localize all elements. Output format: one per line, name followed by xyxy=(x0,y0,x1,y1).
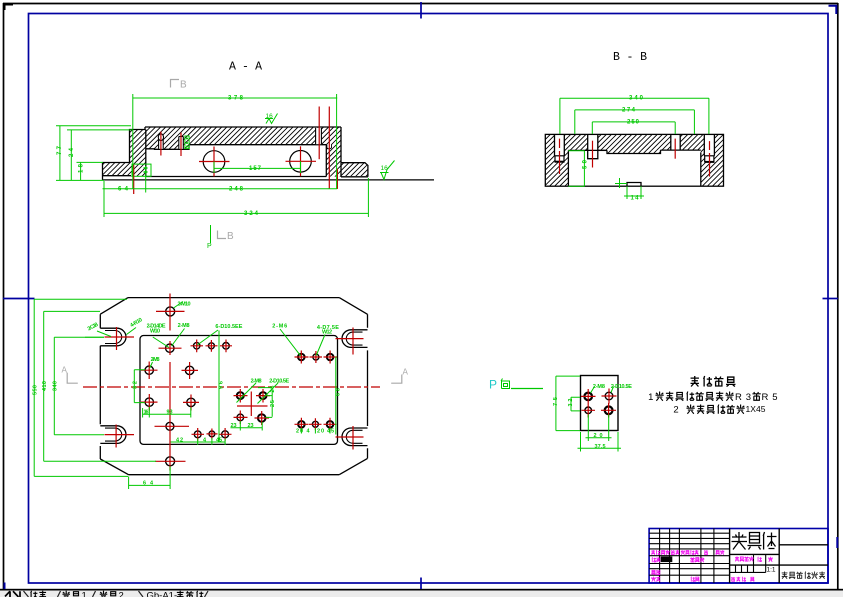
magenta labels left table (pseudo hanzi) xyxy=(651,550,773,582)
leaders xyxy=(591,387,614,394)
svg-text:1:1: 1:1 xyxy=(767,567,776,574)
ceiling left segment xyxy=(568,149,607,151)
plan green labels xyxy=(33,302,342,487)
hatched right wall block xyxy=(701,134,724,186)
svg-text:1X45: 1X45 xyxy=(746,404,766,414)
stud hole 2 (white slot) xyxy=(179,137,184,149)
bore right crosshair xyxy=(286,160,317,162)
small row crosses xyxy=(192,428,232,441)
svg-text:157: 157 xyxy=(249,166,262,172)
P green dims xyxy=(556,376,621,451)
bottom-left chamfer xyxy=(100,459,128,475)
top edge xyxy=(128,297,339,299)
svg-text:32: 32 xyxy=(568,399,574,407)
svg-text:23: 23 xyxy=(231,423,237,429)
right edge segments xyxy=(367,314,369,458)
bolt left outline xyxy=(555,134,565,155)
long vertical ext x219 xyxy=(218,331,220,443)
right A marker xyxy=(391,375,402,384)
svg-text:45: 45 xyxy=(327,429,334,435)
left flange left edge xyxy=(102,163,104,180)
svg-text:W10: W10 xyxy=(150,329,160,335)
left flange top xyxy=(103,162,130,164)
green dims B-B xyxy=(560,98,709,199)
dim under small row xyxy=(171,438,226,445)
plan holes (black circles) xyxy=(145,307,333,466)
hole upper-left M8 xyxy=(166,344,174,352)
dim 64/248 line xyxy=(103,188,337,190)
cluster bottom dim xyxy=(231,421,263,431)
svg-text:2: 2 xyxy=(673,405,678,416)
right flange top + chamfer xyxy=(341,163,368,177)
2x2 cluster xyxy=(237,392,244,399)
right trio bottom tick xyxy=(301,428,330,434)
right trio top xyxy=(298,354,305,361)
P arrow green small xyxy=(210,225,212,243)
right wall outer edge xyxy=(340,127,342,177)
svg-text:Gb-A1-: Gb-A1- xyxy=(147,591,178,597)
tab text: 模型 xyxy=(31,591,204,597)
svg-text:20: 20 xyxy=(317,429,324,435)
centering mark right xyxy=(823,298,839,300)
svg-text:37.5: 37.5 xyxy=(595,444,606,450)
hatched top plate right part xyxy=(189,127,341,145)
plate bottom right segment xyxy=(189,144,326,146)
right flange underside xyxy=(341,176,368,178)
slot2 centerline xyxy=(592,141,594,168)
svg-text:32: 32 xyxy=(133,381,139,389)
right wall inner edge xyxy=(325,145,327,177)
slot3 outline xyxy=(671,134,680,149)
base bottom + ground line xyxy=(103,179,435,181)
bottom-right chamfer xyxy=(339,458,367,474)
ext line left long xyxy=(132,94,134,189)
bore circle right xyxy=(290,151,312,173)
ext line right long xyxy=(336,94,338,189)
bolt slot right (white) xyxy=(704,134,714,156)
body outline black xyxy=(103,127,435,180)
P holes xyxy=(584,392,612,414)
leader label a to hole2 xyxy=(153,337,169,348)
hatched right flange xyxy=(341,163,368,176)
right trio bottom crosses xyxy=(295,418,337,431)
plan green dims xyxy=(34,299,336,489)
hatched top band xyxy=(568,134,700,150)
left table verticals xyxy=(659,529,661,584)
green gauge box at left flange xyxy=(132,164,151,176)
ext left bottom xyxy=(103,181,105,217)
leader right trio phi7.5 xyxy=(316,335,325,356)
bottom dim 64 xyxy=(129,484,171,486)
outer border blue xyxy=(649,529,828,584)
main horizontal centerline dashed xyxy=(83,386,380,388)
bolt slot left (white) xyxy=(555,134,565,156)
left flange underside xyxy=(103,175,132,177)
centering mark bottom xyxy=(420,578,422,590)
B cut marker top (gray) xyxy=(171,80,180,88)
hatched left wall xyxy=(130,130,146,177)
ceiling right segment xyxy=(661,149,701,151)
left bracket dim xyxy=(556,376,580,431)
svg-text:250: 250 xyxy=(627,120,640,126)
svg-text:274: 274 xyxy=(622,108,636,114)
leader right trio 2-M6 xyxy=(280,329,301,356)
left notch leader xyxy=(85,331,111,337)
svg-text:14: 14 xyxy=(631,196,640,202)
hatched central ledge xyxy=(607,150,661,153)
cavity right wall edge xyxy=(700,152,702,186)
dim labels A-A (green) xyxy=(57,96,262,218)
top-left black corner mark xyxy=(5,5,14,11)
svg-text:A: A xyxy=(62,366,68,376)
ext right bottom xyxy=(367,178,369,217)
hatched left wall block xyxy=(545,134,568,186)
vertical centerline through mid holes xyxy=(169,294,171,471)
cavity floor xyxy=(146,176,326,178)
plate bottom left segment xyxy=(146,145,189,150)
green dimensions A-A xyxy=(56,94,368,217)
left bolt centerline xyxy=(559,139,561,174)
svg-text:25: 25 xyxy=(270,386,276,393)
small cells row xyxy=(730,571,766,573)
left dim verticals xyxy=(33,299,35,476)
hatched left flange xyxy=(103,163,130,176)
stage row labels xyxy=(735,556,739,561)
布局1 xyxy=(62,591,70,597)
ext at 145.7 xyxy=(145,166,147,193)
notch top-right xyxy=(342,330,368,348)
hole top M10 xyxy=(166,307,175,316)
svg-text:P: P xyxy=(207,243,212,250)
bottom dim ext xyxy=(586,415,612,442)
P green labels xyxy=(553,384,632,450)
svg-text:68: 68 xyxy=(336,388,342,396)
stud2 centerline xyxy=(180,133,182,157)
outer outline xyxy=(100,298,367,475)
mid-left crosses xyxy=(141,362,198,380)
lower-left crosses xyxy=(141,394,199,411)
dim 274 xyxy=(575,109,695,111)
signature black blot xyxy=(661,557,673,563)
through slot 2 (white) xyxy=(588,134,598,159)
notch bottom-left xyxy=(100,426,126,444)
cluster right bracket xyxy=(258,388,272,418)
bottom edge xyxy=(129,474,340,476)
svg-text:93: 93 xyxy=(167,410,173,416)
hole4 leader xyxy=(150,362,153,368)
ju xyxy=(748,533,762,550)
center column boundary xyxy=(778,529,780,584)
trio left crosses xyxy=(191,340,233,353)
right column rows xyxy=(779,544,828,546)
top hole cross xyxy=(156,310,185,312)
svg-text:2-D10.5E: 2-D10.5E xyxy=(611,384,632,390)
标题栏 xyxy=(177,591,184,597)
left wall inner edge xyxy=(145,130,147,177)
trio left holes xyxy=(194,343,200,349)
left flange bolt centerline xyxy=(133,165,135,194)
inner pocket xyxy=(140,336,338,445)
ti xyxy=(763,532,776,550)
top-right chamfer xyxy=(339,298,367,315)
jia xyxy=(732,532,748,550)
ledge step xyxy=(607,150,661,153)
svg-text:340: 340 xyxy=(629,96,644,102)
labels B-B xyxy=(583,96,644,202)
under title cell xyxy=(730,553,780,555)
counterbore seat under plate right xyxy=(327,144,332,149)
svg-text:378: 378 xyxy=(228,96,244,102)
P red crosses xyxy=(581,389,617,418)
connector top1 xyxy=(56,125,131,127)
hole lower-left pair xyxy=(145,398,153,406)
svg-text:77: 77 xyxy=(57,145,63,155)
svg-text:16: 16 xyxy=(266,113,274,120)
slot3 centerline xyxy=(674,139,676,159)
svg-text:45: 45 xyxy=(216,438,222,444)
window bottom black line xyxy=(0,589,843,591)
right bolt centerline xyxy=(709,141,711,176)
bore left crosshair xyxy=(199,161,230,163)
connector flange top xyxy=(77,161,104,163)
2x2 cluster crosses xyxy=(234,389,271,425)
cavity depth dim xyxy=(568,150,584,152)
slot2 outline xyxy=(588,134,598,158)
centering mark left xyxy=(3,298,35,300)
corner leader top-left xyxy=(127,328,137,335)
green gauge box beside stud 2 xyxy=(185,136,189,149)
notch bottom dim xyxy=(626,186,628,199)
corner tick bottom-left xyxy=(4,583,6,590)
svg-text:16: 16 xyxy=(144,410,149,416)
svg-text:B - B: B - B xyxy=(613,51,647,64)
stud1 centerline xyxy=(160,132,162,156)
svg-text:23: 23 xyxy=(248,423,254,429)
bottom hole cross xyxy=(155,460,186,462)
left A marker xyxy=(67,373,78,384)
hole bottom M10 xyxy=(166,457,175,466)
dim 378 top xyxy=(133,97,337,99)
connector top2 xyxy=(67,129,132,131)
upper-left hole cross xyxy=(159,347,182,349)
notch crosses xyxy=(105,327,364,450)
svg-text:96: 96 xyxy=(219,381,225,389)
B cut marker bottom (gray) xyxy=(218,231,227,239)
top-left chamfer xyxy=(100,298,128,315)
bottom center notch box xyxy=(627,183,641,186)
red centerlines A-A xyxy=(134,107,338,195)
dim 340 xyxy=(560,97,709,99)
ledge top line over xyxy=(598,149,607,151)
notch small dim cross xyxy=(615,178,627,188)
A section markers gray xyxy=(67,373,402,384)
svg-text:B: B xyxy=(180,80,187,91)
top-left step xyxy=(130,127,146,163)
plan red centerlines xyxy=(83,294,380,471)
svg-text:2-M10: 2-M10 xyxy=(178,302,191,308)
right trio bottom xyxy=(298,421,305,428)
centering mark top xyxy=(420,2,422,19)
svg-text:1: 1 xyxy=(648,392,653,403)
svg-text:A: A xyxy=(403,368,409,378)
svg-text:A - A: A - A xyxy=(229,61,262,74)
grid black lines xyxy=(649,529,828,584)
hole mid b xyxy=(185,366,193,374)
bore circle left xyxy=(203,151,225,173)
through slot 3 (white) xyxy=(671,134,680,150)
svg-text:2-M8: 2-M8 xyxy=(151,357,160,363)
surface finish symbol on plate xyxy=(265,114,278,124)
leader to left trio xyxy=(197,330,218,345)
notch top-left xyxy=(100,328,126,346)
left vert dim 2 xyxy=(70,130,72,181)
布局2 xyxy=(100,591,108,597)
nav arrow icon xyxy=(5,591,20,597)
dim under lower-left pair xyxy=(143,407,191,418)
svg-text:50: 50 xyxy=(583,159,589,169)
dim 250 xyxy=(592,121,675,123)
corner mark top-right xyxy=(829,6,837,14)
dim 324 xyxy=(104,212,368,214)
stage mark sub dividers xyxy=(753,554,755,565)
svg-text:18: 18 xyxy=(79,163,85,173)
svg-text:340: 340 xyxy=(53,381,59,391)
svg-text:42: 42 xyxy=(176,438,183,444)
right trio top crosses xyxy=(295,351,338,364)
tick right lower xyxy=(836,537,838,548)
svg-text:2-D10.5E: 2-D10.5E xyxy=(269,379,289,385)
svg-text:2-M8: 2-M8 xyxy=(251,379,262,385)
connector bottom xyxy=(56,179,104,181)
svg-text:20: 20 xyxy=(296,429,303,435)
bolt right outline xyxy=(704,134,714,155)
plate top edge xyxy=(145,126,341,128)
cluster leaders diagonal xyxy=(237,383,279,404)
school name 沈阳理工大学 (fake glyphs) xyxy=(782,572,825,579)
svg-text:24: 24 xyxy=(69,147,75,157)
left vert dim 3 xyxy=(80,162,82,180)
long vertical ext right x335.8 xyxy=(335,357,337,435)
svg-text:248: 248 xyxy=(229,186,244,192)
right plate slot hole xyxy=(316,128,322,144)
left edge segments xyxy=(99,314,101,459)
sheets row xyxy=(731,577,735,581)
svg-text:W12: W12 xyxy=(322,330,332,336)
svg-text:2-M8: 2-M8 xyxy=(593,384,605,390)
svg-text:25: 25 xyxy=(270,400,276,407)
left table horizontals xyxy=(649,532,730,534)
B-B outline black xyxy=(545,134,723,186)
small bracket dim xyxy=(571,397,580,411)
center hole cross xyxy=(155,425,190,427)
hole center xyxy=(166,422,174,430)
title 夹具体 strokes xyxy=(732,532,777,550)
dim 157 between bores xyxy=(214,167,301,169)
stud hole 1 (white slot + cap) xyxy=(159,137,164,149)
right hole centerline long xyxy=(328,107,330,189)
notch bottom-right xyxy=(342,428,368,446)
right slot centerline xyxy=(318,107,320,160)
left vert dim 1 xyxy=(59,126,61,181)
svg-text:B: B xyxy=(227,231,234,242)
underline xyxy=(511,388,543,390)
svg-text:550: 550 xyxy=(33,385,39,395)
small row bottom xyxy=(194,431,201,438)
right flange bolt centerline xyxy=(336,169,338,189)
mid-left vertical bracket xyxy=(134,370,145,403)
svg-text:2-M8: 2-M8 xyxy=(178,323,190,329)
hatched top plate left part xyxy=(145,127,189,149)
svg-text:2: 2 xyxy=(119,591,124,597)
svg-text:6-D10.5EE: 6-D10.5EE xyxy=(215,324,242,330)
svg-text:410: 410 xyxy=(42,381,48,391)
red centerlines B-B xyxy=(560,139,710,177)
leader top hole xyxy=(174,302,184,309)
hole mid-left a xyxy=(145,366,153,374)
hanzi xiang xyxy=(501,379,510,389)
svg-text:324: 324 xyxy=(244,211,259,217)
left dim connectors xyxy=(34,298,127,300)
line1: 技术要求 xyxy=(691,376,699,387)
big cross center cluster xyxy=(237,392,268,417)
svg-text:1: 1 xyxy=(82,591,87,597)
body rect xyxy=(581,376,619,431)
tab slant separators xyxy=(24,591,209,597)
cavity left wall edge xyxy=(567,150,569,186)
svg-text:P: P xyxy=(489,378,497,392)
svg-text:2-M6: 2-M6 xyxy=(272,324,287,330)
hatched right wall xyxy=(326,145,341,177)
svg-text:16: 16 xyxy=(381,165,389,172)
surface finish symbol on ground xyxy=(380,161,395,180)
